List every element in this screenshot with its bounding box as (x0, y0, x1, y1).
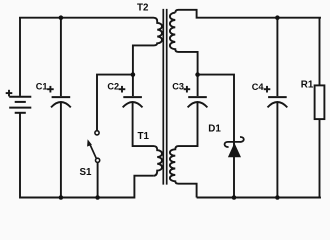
wire: node A to switch S1 (97, 75, 133, 131)
diode D1 anode triangle (228, 143, 241, 157)
battery B1 (9, 97, 31, 113)
diode D1 (schottky) cathode bar with hooks (225, 137, 244, 147)
svg-text:C1: C1 (36, 82, 48, 92)
svg-text:C4: C4 (252, 82, 265, 92)
bottom rail right segment (197, 196, 320, 199)
wire: C3 bottom down and into T1 right winding, transformer T1 right winding, step down to bottom rail (170, 103, 198, 198)
transformer T2 right winding (170, 13, 198, 75)
switch S1 lever arrowhead (87, 139, 92, 146)
wire: R1 bottom to bottom-right corner (319, 119, 321, 197)
junction node: bottom rail / C1 (59, 195, 64, 200)
junction node B: T2 right winding / C3 / D1 (195, 72, 200, 77)
plus sign of C4 (264, 86, 271, 93)
battery plus sign (6, 90, 13, 97)
switch S1 lever (90, 144, 97, 159)
capacitor C2 (123, 97, 143, 107)
svg-text:R1: R1 (301, 79, 314, 90)
switch S1 contact circles (95, 131, 99, 135)
wire: C2 bottom down and into T1 left winding, transformer T1 left winding, down to bottom rail step (133, 103, 162, 176)
svg-text:T1: T1 (138, 131, 150, 142)
plus sign of C1 (47, 86, 54, 93)
plus sign of C3 (184, 86, 191, 93)
svg-text:T2: T2 (137, 2, 149, 13)
capacitor C3 (188, 97, 208, 107)
capacitor C4 top wire from top rail (276, 18, 278, 96)
transformer core (shared by T1 and T2) (162, 9, 164, 185)
svg-text:C3: C3 (172, 82, 184, 92)
capacitor C2 top wire from node A (132, 75, 134, 97)
wire: C1 bottom to bottom rail (60, 103, 62, 198)
wire: left rail from top corner down to battery (19, 17, 21, 96)
capacitor C1 top wire from top rail (60, 18, 62, 96)
wire: battery bottom to bottom-left corner and bottom rail left segment (20, 113, 154, 198)
wire: switch S1 bottom to bottom rail (97, 162, 99, 197)
capacitor C4 (268, 97, 288, 107)
resistor R1 body (315, 85, 325, 119)
junction node: bottom rail / D1 (232, 195, 237, 200)
wire: top rail left + transformer T2 left winding + wire down to node A (20, 17, 162, 75)
wire: top rail right + T2 right winding top jog (175, 10, 320, 18)
capacitor C3 top wire from node B (197, 75, 199, 97)
junction node: top rail / C4 (275, 15, 280, 20)
svg-text:C2: C2 (107, 82, 119, 92)
junction node: bottom rail / S1 (95, 195, 100, 200)
capacitor C1 (51, 97, 71, 107)
wire: right rail from top corner to resistor R1 (319, 18, 321, 86)
wire: C4 bottom to bottom rail (276, 103, 278, 198)
svg-text:S1: S1 (80, 167, 93, 178)
wire: node B to diode D1 branch (198, 75, 234, 198)
svg-text:D1: D1 (208, 124, 221, 135)
junction node A: T2 left winding / C2 / S1 (131, 72, 136, 77)
junction node: top rail / C1 (59, 15, 64, 20)
plus sign of C2 (119, 86, 126, 93)
junction node: bottom rail / C4 (275, 195, 280, 200)
